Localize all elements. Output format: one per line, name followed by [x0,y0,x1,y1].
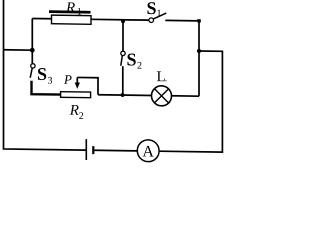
svg-text:S: S [127,49,137,69]
svg-text:2: 2 [137,60,142,71]
svg-text:3: 3 [48,75,53,86]
svg-text:P: P [63,72,72,87]
svg-text:.: . [165,73,167,84]
svg-text:R: R [65,0,75,16]
svg-text:2: 2 [79,111,84,122]
svg-text:A: A [142,143,154,160]
svg-text:1: 1 [77,7,82,18]
svg-text:1: 1 [157,8,162,19]
svg-text:S: S [147,0,157,18]
svg-text:S: S [37,64,47,84]
svg-text:R: R [69,103,79,119]
